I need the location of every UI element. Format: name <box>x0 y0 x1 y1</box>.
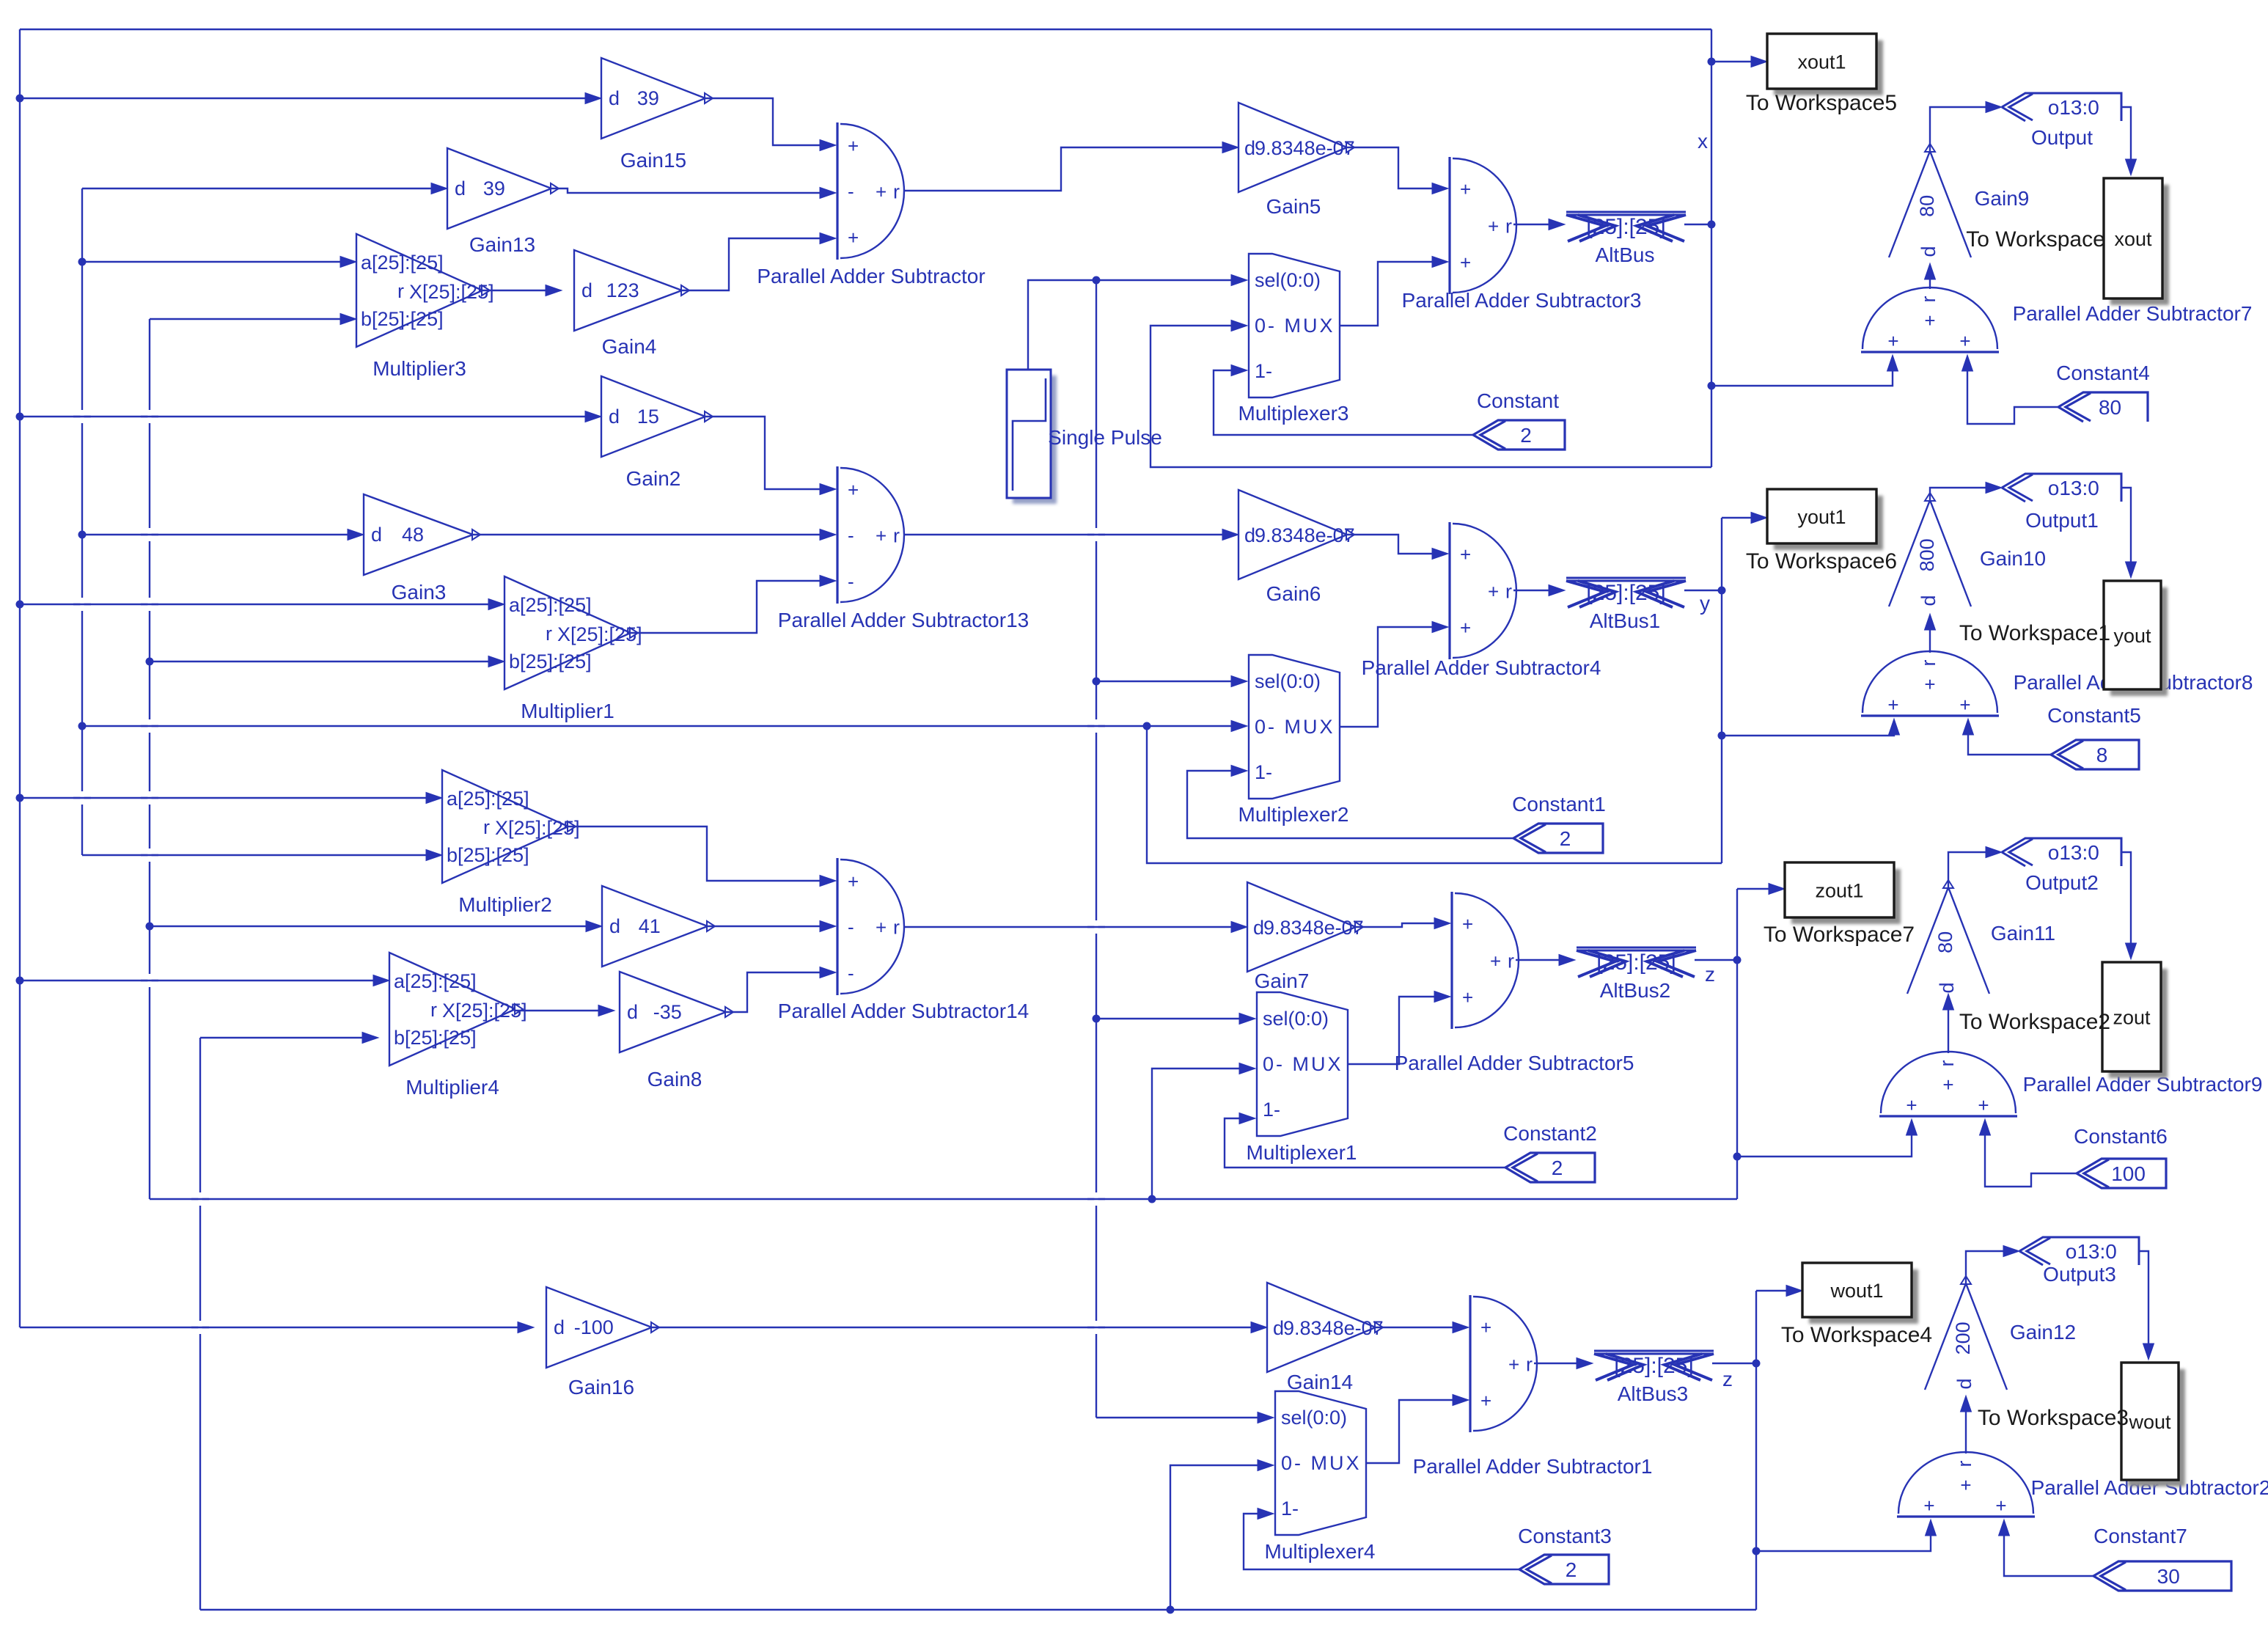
svg-text:2: 2 <box>1520 424 1532 447</box>
node junction V1-Gain15 <box>16 95 24 103</box>
svg-text:2: 2 <box>1552 1157 1563 1179</box>
constant Constant <box>1473 420 1565 450</box>
wire Multiplexer4 out to PAS1 <box>1366 1395 1469 1464</box>
svg-text:200: 200 <box>1952 1322 1974 1355</box>
svg-text:r: r <box>1953 1461 1975 1467</box>
svg-text:Parallel Adder Subtractor14: Parallel Adder Subtractor14 <box>778 1000 1029 1022</box>
multiplier Multiplier1 <box>504 576 642 689</box>
svg-text:123: 123 <box>606 279 639 301</box>
svg-text:Gain14: Gain14 <box>1287 1371 1353 1393</box>
node junction sel bus mux2 <box>1093 678 1101 686</box>
svg-text:Gain8: Gain8 <box>647 1068 702 1091</box>
svg-text:[25]:[25]: [25]:[25] <box>1596 950 1676 975</box>
workspace xout1 <box>1767 34 1883 95</box>
svg-text:+: + <box>1508 1354 1519 1376</box>
node junction V2-mux2 <box>78 722 87 730</box>
svg-text:Gain4: Gain4 <box>602 335 657 358</box>
label Parallel Adder Subtractor7 <box>2013 302 2253 325</box>
wire sel to Multiplexer4 <box>1096 1412 1274 1423</box>
wire Single Pulse output to Multiplexer3 sel <box>1028 275 1247 370</box>
wire Gain13 input <box>82 183 447 194</box>
wire Gain16 to Gain14 <box>652 1322 1267 1333</box>
label Parallel Adder Subtractor4 <box>1362 656 1601 679</box>
wire y to yout1 <box>1722 513 1767 524</box>
svg-text:b[25]:[25]: b[25]:[25] <box>394 1027 477 1049</box>
wire w to PAS2 left plus <box>1756 1520 1937 1551</box>
svg-text:+: + <box>876 181 887 203</box>
svg-text:d: d <box>581 279 592 301</box>
gain Gain7 <box>1247 882 1364 972</box>
svg-text:1-: 1- <box>1263 1099 1280 1121</box>
label z <box>1705 963 1715 986</box>
wire Constant3 to Multiplexer4 1-input <box>1244 1509 1519 1570</box>
svg-text:+: + <box>1887 330 1898 352</box>
adder Parallel Adder Subtractor7 <box>1861 287 1999 352</box>
svg-text:1-: 1- <box>1281 1498 1299 1520</box>
svg-text:+: + <box>1924 673 1935 695</box>
svg-text:Gain16: Gain16 <box>568 1376 634 1399</box>
svg-text:r: r <box>1526 1354 1533 1376</box>
workspace yout1 <box>1767 489 1883 550</box>
svg-text:r: r <box>483 816 490 838</box>
svg-text:Gain3: Gain3 <box>392 581 447 604</box>
adder Parallel Adder Subtractor5 <box>1452 892 1519 1029</box>
gain Gain11 <box>1907 880 1989 994</box>
svg-text:d: d <box>1244 137 1255 159</box>
wire w to Multiplexer4 0-input <box>1170 1460 1274 1610</box>
svg-text:sel(0:0): sel(0:0) <box>1263 1008 1329 1030</box>
svg-text:Single Pulse: Single Pulse <box>1048 426 1162 449</box>
wire Multiplier3 a input <box>82 257 356 268</box>
bus AltBus2 <box>1577 948 1696 977</box>
svg-text:d: d <box>1917 595 1939 606</box>
label Parallel Adder Subtractor9 <box>2023 1073 2263 1096</box>
adder Parallel Adder Subtractor3 <box>1450 157 1516 294</box>
gain Gain1 <box>602 886 715 967</box>
wire w to wout1 <box>1756 1286 1802 1297</box>
svg-text:-100: -100 <box>574 1316 614 1338</box>
svg-text:Multiplexer2: Multiplexer2 <box>1238 803 1349 826</box>
svg-text:r: r <box>1917 660 1939 667</box>
svg-text:a[25]:[25]: a[25]:[25] <box>361 252 444 274</box>
svg-text:+: + <box>848 227 859 249</box>
gain Gain3 <box>364 494 480 575</box>
adder Parallel Adder Subtractor1 <box>1470 1295 1537 1432</box>
mux Multiplexer3 <box>1249 254 1340 397</box>
label Output <box>2031 126 2093 149</box>
wire Multiplier3 b input <box>150 314 356 325</box>
label AltBus1 <box>1590 609 1661 632</box>
svg-text:Gain9: Gain9 <box>1975 187 2030 210</box>
wire Constant1 to Multiplexer2 1-input <box>1187 766 1513 839</box>
label Constant1 <box>1512 793 1606 815</box>
multiplier Multiplier4 <box>389 953 527 1066</box>
svg-text:d: d <box>609 87 620 109</box>
node junction z-AltBus2 <box>1733 956 1742 964</box>
wire sel to Multiplexer2 <box>1096 676 1247 687</box>
svg-text:a[25]:[25]: a[25]:[25] <box>447 788 529 810</box>
svg-text:d: d <box>627 1001 638 1023</box>
svg-text:To Workspace: To Workspace <box>1966 227 2105 252</box>
svg-text:a[25]:[25]: a[25]:[25] <box>509 594 592 616</box>
label Constant <box>1477 389 1559 412</box>
svg-text:41: 41 <box>639 915 661 937</box>
wire Multiplexer1 out to PAS5 <box>1348 992 1450 1065</box>
svg-text:0- MUX: 0- MUX <box>1281 1452 1362 1474</box>
label Gain16 <box>568 1376 634 1399</box>
adder Parallel Adder Subtractor13 <box>837 466 904 604</box>
label To Workspace7 <box>1764 923 1915 947</box>
wire Gain3 input <box>82 529 364 540</box>
svg-text:-: - <box>848 962 854 984</box>
svg-text:yout1: yout1 <box>1797 506 1846 528</box>
wire Gain14 to PAS1 <box>1376 1322 1469 1333</box>
label Multiplier1 <box>521 700 614 722</box>
label Gain14 <box>1287 1371 1353 1393</box>
gain Gain16 <box>546 1287 659 1368</box>
svg-text:+: + <box>848 871 859 893</box>
label To Workspace4 <box>1781 1323 1932 1347</box>
node x vertical <box>1711 29 1712 467</box>
node junction w-AltBus3 <box>1753 1360 1761 1368</box>
label Multiplexer1 <box>1247 1141 1357 1164</box>
svg-text:To Workspace5: To Workspace5 <box>1746 91 1897 115</box>
node junction V1-Gain2 <box>16 413 24 421</box>
gain Gain6 <box>1238 490 1355 579</box>
svg-text:+: + <box>1460 178 1471 200</box>
wire y line to Multiplexer2 0-input <box>82 721 1247 732</box>
node junction x-xout1 <box>1708 58 1716 66</box>
node y vertical <box>1721 518 1722 863</box>
wire sel bus vertical <box>1096 280 1097 1418</box>
wire Output2 to zout <box>2121 852 2137 959</box>
constant Constant3 <box>1519 1555 1609 1584</box>
wire Gain6 to PAS4 <box>1347 535 1448 560</box>
wire Output3 to wout <box>2139 1251 2154 1360</box>
wire crossing gaps <box>73 410 1105 1334</box>
tag Output2 <box>2002 838 2121 866</box>
svg-text:0- MUX: 0- MUX <box>1255 716 1335 738</box>
wire PAS13 to Gain6 <box>903 529 1238 540</box>
workspace xout <box>2104 178 2169 305</box>
wire Multiplier4 b input <box>200 1033 378 1044</box>
wire Constant6 to PAS9 right plus <box>1980 1119 2077 1187</box>
wire Gain7 to PAS5 <box>1356 918 1450 929</box>
tag Output <box>2002 93 2121 121</box>
label To Workspace5 <box>1746 91 1897 115</box>
node junction V2-Multiplier3a <box>78 258 87 266</box>
label Constant2 <box>1503 1122 1597 1145</box>
svg-text:-: - <box>848 180 854 202</box>
adder Parallel Adder Subtractor9 <box>1879 1052 2017 1116</box>
wire AltBus1 to y node <box>1684 590 1722 591</box>
node junction V1-Multiplier1a <box>16 601 24 609</box>
svg-text:+: + <box>1462 986 1473 1008</box>
svg-text:+: + <box>1460 252 1471 274</box>
svg-text:To Workspace1: To Workspace1 <box>1959 621 2110 645</box>
svg-text:d: d <box>1953 1378 1975 1389</box>
label Parallel Adder Subtractor13 <box>778 609 1029 631</box>
svg-text:+: + <box>1960 1474 1971 1496</box>
svg-text:o13:0: o13:0 <box>2048 96 2099 119</box>
wire PAS9 to Gain11 <box>1943 994 1954 1053</box>
svg-text:Output2: Output2 <box>2025 871 2099 894</box>
label Output3 <box>2043 1263 2116 1286</box>
wire y return vertical <box>1147 726 1722 863</box>
label Gain9 <box>1975 187 2030 210</box>
label Parallel Adder Subtractor14 <box>778 1000 1029 1022</box>
wire Multiplier2 b input <box>82 850 442 861</box>
svg-text:d: d <box>1273 1317 1284 1339</box>
svg-text:yout: yout <box>2113 625 2151 647</box>
wire Multiplexer3 out to PAS3 <box>1340 257 1448 326</box>
wire Gain2 to PAS13 plus <box>705 417 836 495</box>
wire Constant2 to Multiplexer1 1-input <box>1225 1113 1505 1168</box>
wire Gain1 input <box>150 921 602 932</box>
svg-text:Parallel Adder Subtractor4: Parallel Adder Subtractor4 <box>1362 656 1601 679</box>
gain Gain5 <box>1238 103 1355 192</box>
svg-text:+: + <box>1490 950 1501 972</box>
svg-text:+: + <box>1942 1074 1953 1096</box>
svg-text:+: + <box>1488 216 1499 238</box>
node junction z-PAS9 <box>1733 1153 1742 1161</box>
label Constant3 <box>1518 1525 1612 1547</box>
svg-text:100: 100 <box>2111 1162 2146 1185</box>
svg-text:-35: -35 <box>653 1001 682 1023</box>
svg-text:d: d <box>1253 917 1264 939</box>
node junction V1-Multiplier4a <box>16 977 24 985</box>
label Gain8 <box>647 1068 702 1091</box>
label AltBus3 <box>1618 1382 1689 1405</box>
node junction y-PAS8 <box>1718 732 1726 740</box>
wire z rail vertical V3 <box>149 319 150 1199</box>
wire Constant5 to PAS8 right plus <box>1963 719 2052 755</box>
label Multiplexer4 <box>1265 1540 1376 1563</box>
node junction y-mux2 branch <box>1143 722 1151 730</box>
wire Multiplier1 a input <box>20 599 504 610</box>
svg-text:zout1: zout1 <box>1815 880 1863 902</box>
adder Parallel Adder Subtractor <box>837 122 904 260</box>
svg-text:To Workspace2: To Workspace2 <box>1959 1010 2110 1034</box>
node junction sel bus <box>1093 276 1101 285</box>
label To Workspace2 <box>1959 1010 2110 1034</box>
svg-text:Multiplier1: Multiplier1 <box>521 700 614 722</box>
constant Constant5 <box>2051 740 2139 769</box>
svg-text:Parallel Adder Subtractor7: Parallel Adder Subtractor7 <box>2013 302 2253 325</box>
svg-text:-: - <box>848 571 854 593</box>
wire x feedback top horizontal <box>20 29 1711 30</box>
tag Output1 <box>2002 474 2121 502</box>
svg-text:z: z <box>1722 1368 1733 1390</box>
label Gain1 <box>0 0 1 1</box>
constant Constant2 <box>1505 1153 1595 1182</box>
constant Constant1 <box>1513 824 1603 853</box>
svg-text:r: r <box>546 623 552 645</box>
wire PAS7 to Gain9 <box>1925 263 1936 289</box>
gain Gain8 <box>620 972 733 1052</box>
svg-text:80: 80 <box>2099 396 2121 419</box>
wire Gain15 to PAS plus <box>705 98 836 151</box>
svg-text:To Workspace4: To Workspace4 <box>1781 1323 1932 1347</box>
svg-text:r: r <box>1936 1060 1958 1067</box>
svg-text:Constant7: Constant7 <box>2093 1525 2187 1547</box>
adder Parallel Adder Subtractor14 <box>837 858 904 995</box>
label Output1 <box>2025 509 2099 532</box>
wire x to xout1 <box>1711 56 1767 67</box>
svg-text:2: 2 <box>1560 827 1571 850</box>
wire PAS1 to AltBus3 <box>1534 1358 1593 1369</box>
svg-text:Gain12: Gain12 <box>2010 1321 2076 1344</box>
svg-text:+: + <box>1480 1316 1491 1338</box>
wire Gain1 to PAS14 minus <box>708 921 836 932</box>
svg-text:+: + <box>848 135 859 157</box>
label To Workspace3 <box>1978 1406 2129 1430</box>
svg-text:1-: 1- <box>1255 761 1272 783</box>
wire y to PAS8 left plus <box>1722 719 1900 736</box>
label Gain13 <box>469 233 535 256</box>
mux Multiplexer2 <box>1249 655 1340 799</box>
label AltBus <box>1596 243 1655 266</box>
svg-text:d: d <box>1936 982 1958 993</box>
svg-text:Gain13: Gain13 <box>469 233 535 256</box>
node junction V3-Gain1 <box>146 923 154 931</box>
svg-text:wout1: wout1 <box>1830 1280 1883 1302</box>
svg-text:-: - <box>848 524 854 546</box>
svg-text:Output: Output <box>2031 126 2093 149</box>
svg-text:+: + <box>848 479 859 501</box>
svg-text:9.8348e-07: 9.8348e-07 <box>1255 137 1355 159</box>
wire PAS4 to AltBus1 <box>1513 585 1565 596</box>
svg-text:+: + <box>1480 1390 1491 1412</box>
wire AltBus3 to w node <box>1712 1363 1756 1364</box>
svg-text:To Workspace7: To Workspace7 <box>1764 923 1915 947</box>
svg-text:To Workspace3: To Workspace3 <box>1978 1406 2129 1430</box>
svg-text:xout: xout <box>2114 228 2152 250</box>
svg-text:Parallel Adder Subtractor5: Parallel Adder Subtractor5 <box>1395 1052 1634 1074</box>
wire Output to xout <box>2121 107 2137 175</box>
svg-text:AltBus: AltBus <box>1596 243 1655 266</box>
label Multiplexer2 <box>1238 803 1349 826</box>
constant Constant7 <box>2093 1561 2231 1591</box>
wire x to PAS7 left plus <box>1711 355 1898 386</box>
gain Gain9 <box>1889 144 1971 257</box>
wire z to Multiplexer1 0-input <box>1152 1063 1255 1200</box>
svg-text:2: 2 <box>1566 1558 1577 1581</box>
svg-text:d: d <box>371 524 382 546</box>
svg-text:wout: wout <box>2128 1411 2171 1433</box>
svg-text:+: + <box>876 917 887 939</box>
svg-text:Output3: Output3 <box>2043 1263 2116 1286</box>
svg-text:zout: zout <box>2113 1007 2151 1029</box>
label Output2 <box>2025 871 2099 894</box>
wire Gain3 to PAS13 minus <box>473 529 836 540</box>
svg-text:80: 80 <box>1916 195 1938 217</box>
label Multiplier2 <box>458 893 552 916</box>
svg-text:r: r <box>1505 216 1512 238</box>
svg-text:r: r <box>1917 296 1939 303</box>
wire PAS5 to AltBus2 <box>1516 955 1575 966</box>
wire Gain11 to Output2 <box>1948 847 2002 888</box>
svg-text:d: d <box>609 915 620 937</box>
svg-text:Gain15: Gain15 <box>620 149 686 172</box>
gain Gain4 <box>574 250 689 331</box>
svg-text:+: + <box>1460 543 1471 565</box>
label Gain15 <box>620 149 686 172</box>
label Multiplexer3 <box>1238 402 1349 425</box>
wire Gain13 to PAS minus <box>551 188 836 199</box>
svg-text:1-: 1- <box>1255 360 1272 382</box>
label Gain2 <box>626 467 681 490</box>
node junction x-PAS7 <box>1708 382 1716 390</box>
svg-text:r: r <box>893 181 900 203</box>
label Gain6 <box>1266 582 1321 605</box>
svg-text:Gain5: Gain5 <box>1266 195 1321 218</box>
multiplier Multiplier3 <box>356 234 494 347</box>
wire sel to Multiplexer1 <box>1096 1014 1255 1025</box>
wire Multiplier2 a input <box>20 793 442 804</box>
svg-text:z: z <box>1705 963 1715 986</box>
wire PAS to Gain5 <box>903 142 1238 191</box>
wire PAS8 to Gain10 <box>1925 614 1936 653</box>
svg-text:15: 15 <box>637 406 659 428</box>
wire PAS3 to AltBus <box>1513 219 1565 230</box>
wire Multiplexer2 out to PAS4 <box>1340 622 1448 727</box>
workspace wout1 <box>1802 1263 1918 1324</box>
wire Constant4 to PAS7 right plus <box>1962 355 2059 424</box>
node z vertical <box>1736 889 1738 1199</box>
wire PAS14 to Gain7 <box>903 922 1247 933</box>
wire w line bottom <box>200 1609 1756 1610</box>
label To Workspace6 <box>1746 549 1897 573</box>
bus AltBus3 <box>1594 1351 1714 1380</box>
gain Gain10 <box>1889 493 1971 606</box>
svg-text:+: + <box>1460 617 1471 639</box>
label Gain3 <box>392 581 447 604</box>
svg-text:Constant2: Constant2 <box>1503 1122 1597 1145</box>
svg-text:0- MUX: 0- MUX <box>1263 1053 1343 1075</box>
node junction V3-Multiplier1b <box>146 658 154 666</box>
svg-text:Gain7: Gain7 <box>1255 970 1310 992</box>
constant Constant4 <box>2058 392 2148 422</box>
label Gain12 <box>2010 1321 2076 1344</box>
svg-text:Multiplier2: Multiplier2 <box>458 893 552 916</box>
wire Multiplier3 to Gain4 <box>482 285 562 296</box>
workspace yout <box>2104 581 2168 696</box>
node junction w-mux4 <box>1167 1606 1175 1614</box>
svg-text:Gain10: Gain10 <box>1980 547 2046 570</box>
svg-text:39: 39 <box>637 87 659 109</box>
svg-text:To Workspace6: To Workspace6 <box>1746 549 1897 573</box>
wire Gain16 input <box>20 1322 534 1333</box>
wire Multiplier4 to Gain8 <box>515 1005 614 1016</box>
block Single Pulse <box>1007 370 1057 504</box>
svg-text:Constant6: Constant6 <box>2074 1125 2168 1148</box>
svg-text:48: 48 <box>402 524 424 546</box>
svg-text:Parallel Adder Subtractor: Parallel Adder Subtractor <box>757 265 985 287</box>
svg-text:o13:0: o13:0 <box>2048 477 2099 499</box>
svg-text:39: 39 <box>483 177 505 199</box>
svg-text:80: 80 <box>1934 931 1956 953</box>
wire Gain2 input <box>20 411 601 422</box>
workspace zout <box>2102 962 2168 1078</box>
tag Output3 <box>2019 1237 2139 1265</box>
svg-text:d: d <box>1917 246 1939 257</box>
svg-text:Output1: Output1 <box>2025 509 2099 532</box>
svg-text:+: + <box>1923 1495 1934 1517</box>
svg-text:o13:0: o13:0 <box>2066 1240 2117 1263</box>
wire z line bottom <box>150 1198 1737 1200</box>
label Gain7 <box>1255 970 1310 992</box>
